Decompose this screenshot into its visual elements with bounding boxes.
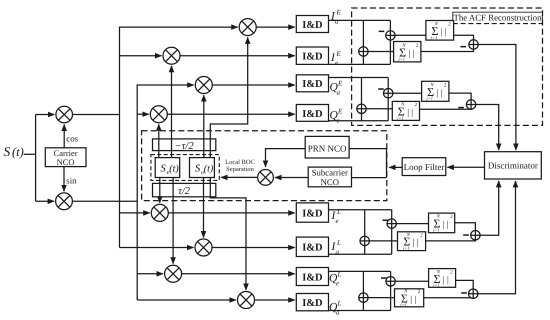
- svg-text:(t): (t): [204, 163, 214, 174]
- mixer M5: [151, 204, 168, 221]
- svg-text:I&D: I&D: [302, 272, 323, 283]
- svg-text:NCO: NCO: [321, 177, 339, 187]
- wire M1 to I&D U1: [256, 26, 294, 28]
- I&D block U7: [296, 268, 328, 286]
- text sum S4f: [432, 269, 453, 288]
- label Ie^L row5: [331, 208, 342, 225]
- wire adder A4d to S4f: [395, 280, 428, 282]
- wire BOC mixer to separation box: [221, 176, 258, 178]
- svg-text:a: a: [336, 248, 340, 256]
- wire adder A2d to S2f: [393, 92, 422, 94]
- svg-text:NCO: NCO: [57, 157, 75, 167]
- minus sign at F4: [461, 292, 467, 294]
- svg-text:cos: cos: [66, 134, 78, 144]
- wire M8 to I&D U8: [255, 299, 295, 301]
- wire carrier mixer I output: [73, 114, 120, 116]
- wire U2 output row: [329, 63, 391, 65]
- svg-text:a: a: [335, 18, 339, 26]
- block subcarrier NCO: [308, 167, 351, 187]
- wire U8 output row: [329, 310, 391, 312]
- svg-text:I&D: I&D: [302, 79, 323, 90]
- wire adder A3s to S3n: [369, 240, 397, 242]
- wire F4 to discriminator: [478, 181, 516, 294]
- mixer carrier I: [56, 106, 73, 123]
- wire adder A4s to S4n: [368, 297, 395, 299]
- svg-text:| |: | |: [410, 294, 416, 304]
- svg-text:E: E: [336, 9, 342, 17]
- wire S3n to final adder F3: [426, 240, 476, 241]
- wire S4f to final adder F4: [456, 280, 474, 289]
- adder A1s: [359, 47, 368, 56]
- wire S2f to final adder F2: [449, 93, 471, 100]
- wire PRN NCO to BOC mixer: [266, 149, 306, 167]
- svg-text:(t): (t): [169, 163, 179, 174]
- summation block S2f: [422, 81, 449, 101]
- svg-text:E: E: [336, 50, 342, 58]
- summation block S2n: [392, 101, 419, 120]
- svg-text:| |: | |: [443, 274, 449, 284]
- dashed box ACF reconstruction: [352, 8, 543, 125]
- svg-text:I&D: I&D: [302, 20, 323, 31]
- wire subcarrier NCO to BOC mixer: [275, 177, 308, 179]
- svg-text:L: L: [336, 239, 341, 247]
- label Qe^L row7: [329, 271, 342, 288]
- text sum S4n: [399, 288, 420, 307]
- wire Q distribution bus + feed M3: [137, 85, 193, 300]
- summation block S1f: [426, 21, 454, 41]
- wire PRN NCO right feed: [349, 148, 386, 150]
- wire M6 to I&D U6: [212, 247, 295, 249]
- block Se(t): [155, 158, 180, 178]
- svg-text:−τ/2: −τ/2: [175, 141, 195, 152]
- adder A3d: [387, 219, 396, 228]
- wire adder A2s to S2n: [366, 108, 392, 110]
- minus sign at A4d: [381, 277, 387, 279]
- svg-text:L: L: [336, 208, 341, 216]
- text sum S1f: [430, 21, 451, 40]
- svg-text:j=1: j=1: [399, 302, 407, 307]
- summation block S3f: [429, 213, 455, 233]
- svg-text:e: e: [337, 117, 340, 125]
- wire adder A3d to S3f: [396, 223, 428, 225]
- mixer M8: [238, 292, 255, 309]
- wire U5 output row: [329, 209, 392, 211]
- wire cos from carrier NCO: [63, 125, 65, 148]
- svg-text:The ACF Reconstruction: The ACF Reconstruction: [454, 12, 543, 22]
- minus sign at F3: [463, 234, 469, 236]
- svg-text:τ/2: τ/2: [178, 186, 191, 197]
- wire F3 to discriminator: [480, 181, 499, 235]
- mixer M4: [150, 106, 167, 123]
- mixer M3: [195, 77, 212, 94]
- svg-text:I&D: I&D: [302, 208, 323, 219]
- svg-text:j=1: j=1: [426, 96, 434, 101]
- wire subcarrier NCO right feed: [352, 177, 387, 179]
- wire discriminator to loop filter: [448, 166, 485, 168]
- wire carrier mixer Q output: [72, 200, 137, 202]
- wire adder A1s to S1n: [368, 51, 394, 53]
- svg-text:| |: | |: [443, 219, 449, 229]
- block So(t): [190, 158, 215, 178]
- adder F2: [466, 100, 475, 109]
- svg-text:j=1: j=1: [402, 246, 410, 251]
- wire M5 to I&D U5: [168, 212, 294, 214]
- svg-text:j=1: j=1: [430, 35, 438, 40]
- wire S1n to final adder F1: [421, 49, 474, 51]
- I&D block U8: [296, 294, 328, 311]
- svg-text:L: L: [337, 300, 342, 308]
- wire sin from carrier NCO: [63, 167, 65, 192]
- text sum S3f: [432, 214, 453, 233]
- mixer M1: [239, 19, 256, 36]
- label Qe^E row4: [330, 108, 344, 125]
- adder F3: [471, 231, 480, 240]
- label Qa^E row3: [330, 80, 344, 97]
- text sum S3n: [402, 232, 423, 251]
- wire group1 diff vertical: [389, 20, 391, 64]
- wire M4 to I&D U4: [167, 113, 294, 115]
- summation block S3n: [398, 232, 426, 251]
- svg-text:S: S: [4, 144, 11, 159]
- block carrier NCO: [45, 148, 86, 167]
- dashed box local replica section: [142, 131, 387, 201]
- mixer carrier Q: [56, 193, 73, 210]
- wire feed M4: [137, 113, 149, 115]
- text sum S2n: [396, 102, 417, 121]
- summation block S4n: [395, 289, 424, 307]
- svg-text:I&D: I&D: [302, 109, 323, 120]
- wire into carrier mixer Q: [36, 200, 54, 202]
- svg-text:e: e: [336, 280, 339, 288]
- wire code Se late to M5: [159, 178, 161, 203]
- wire code Se early to M2: [171, 66, 173, 158]
- svg-text:Separation: Separation: [226, 166, 255, 173]
- wire loop filter to NCO bus: [389, 166, 402, 168]
- wire into carrier mixer I: [36, 114, 55, 116]
- minus sign at A1d: [379, 31, 385, 32]
- wire M7 to I&D U7: [182, 273, 295, 275]
- svg-text:Loop Filter: Loop Filter: [404, 162, 445, 172]
- text sum S1n: [398, 43, 419, 62]
- svg-text:j=1: j=1: [396, 115, 404, 120]
- wire input split vertical: [35, 115, 37, 202]
- wire code So early to M3: [203, 95, 205, 157]
- svg-text:E: E: [337, 108, 343, 116]
- wire feed M5: [120, 212, 150, 214]
- svg-text:S: S: [161, 163, 167, 174]
- label Ia^L row6: [331, 239, 342, 256]
- svg-text:e: e: [336, 217, 339, 225]
- adder F4: [469, 289, 478, 298]
- adder A1d: [386, 31, 395, 40]
- I&D block U1: [296, 16, 328, 33]
- wire U3 output row: [329, 77, 389, 79]
- svg-text:sin: sin: [66, 176, 77, 186]
- summation block S4f: [429, 269, 456, 288]
- wire code Se early to M4: [158, 124, 160, 157]
- wire S1f to final adder F1: [454, 35, 474, 39]
- mixer M7: [165, 265, 182, 282]
- wire group4 sum vertical: [362, 271, 364, 310]
- wire U7 output row: [329, 270, 391, 272]
- wire group3 sum vertical: [364, 210, 366, 255]
- svg-text:I&D: I&D: [302, 298, 323, 309]
- wire group3 diff vertical: [391, 210, 393, 255]
- summation block S1n: [394, 42, 421, 62]
- I&D block U4: [296, 105, 328, 122]
- block loop filter: [402, 158, 446, 176]
- wire U1 output row: [329, 19, 391, 21]
- wire code Se late to M7: [172, 178, 174, 264]
- wire S4n to final adder F4: [424, 297, 474, 300]
- adder A3s: [360, 236, 369, 245]
- wire code So late jog to M8: [210, 178, 246, 290]
- svg-text:e: e: [335, 59, 338, 67]
- minus sign at F1: [460, 46, 466, 48]
- mixer BOC subcarrier: [258, 170, 274, 186]
- wire feed M2: [120, 55, 162, 57]
- svg-text:L: L: [337, 271, 342, 279]
- adder A2d: [384, 89, 393, 98]
- wire F2 to discriminator: [476, 105, 499, 150]
- svg-text:a: a: [337, 89, 341, 97]
- minus sign at A3d: [383, 220, 389, 222]
- wire feed M6: [120, 247, 194, 249]
- wire group1 sum vertical: [362, 20, 364, 64]
- wire I distribution bus + feed M1: [120, 27, 238, 247]
- svg-text:PRN NCO: PRN NCO: [308, 144, 347, 154]
- svg-text:| |: | |: [413, 237, 419, 247]
- wire adder A1d to S1f: [395, 34, 426, 36]
- text sum S2f: [426, 82, 447, 101]
- svg-text:E: E: [337, 80, 343, 88]
- svg-text:j=1: j=1: [432, 283, 440, 288]
- block discriminator: [485, 152, 542, 179]
- delay block -tau/2: [153, 139, 216, 151]
- block PRN NCO: [305, 136, 349, 158]
- delay block tau/2: [153, 183, 216, 196]
- svg-text:| |: | |: [441, 26, 447, 36]
- wire group4 diff vertical: [390, 271, 392, 310]
- wire code So late to M6: [203, 178, 205, 238]
- wire feed M7: [137, 273, 163, 275]
- label Qa^L row8: [329, 300, 342, 317]
- svg-text:I&D: I&D: [302, 52, 323, 63]
- adder A2s: [357, 104, 366, 113]
- label Ie^E row2: [330, 50, 342, 67]
- svg-text:(t): (t): [12, 145, 24, 159]
- svg-text:| |: | |: [437, 87, 443, 97]
- wire S2n to final adder F2: [420, 108, 472, 110]
- adder A4d: [386, 277, 395, 286]
- mixer M6: [195, 239, 212, 256]
- minus sign at F2: [458, 107, 464, 109]
- mixer M2: [163, 47, 180, 64]
- wire S3f to final adder F3: [455, 223, 476, 231]
- adder A4s: [359, 293, 368, 302]
- I&D block U6: [296, 237, 328, 256]
- wire feed M8: [137, 299, 236, 301]
- svg-text:j=1: j=1: [398, 56, 406, 61]
- wire M2 to I&D U2: [180, 55, 295, 57]
- title box The ACF Reconstruction: [453, 12, 543, 23]
- wire M3 to I&D U3: [212, 84, 294, 86]
- label Ia^E row1: [330, 9, 342, 26]
- wire NCO feedback bus: [386, 149, 388, 178]
- dashed box local BOC separation: [151, 155, 219, 181]
- wire U6 output row: [329, 253, 392, 255]
- svg-text:j=1: j=1: [432, 227, 440, 232]
- wire S(t) input lead: [24, 153, 36, 155]
- svg-text:| |: | |: [409, 48, 415, 58]
- wire group2 diff vertical: [387, 78, 389, 121]
- svg-text:| |: | |: [407, 107, 413, 117]
- adder F1: [469, 40, 478, 49]
- svg-text:Local BOC: Local BOC: [225, 159, 255, 166]
- wire U4 output row: [329, 120, 389, 122]
- wire group2 sum vertical: [361, 78, 363, 121]
- I&D block U2: [296, 47, 328, 64]
- minus sign at A2d: [378, 88, 384, 90]
- svg-text:a: a: [336, 309, 340, 317]
- I&D block U5: [296, 203, 328, 222]
- svg-text:S: S: [195, 163, 201, 174]
- svg-text:Discriminator: Discriminator: [488, 160, 538, 170]
- wire F1 to discriminator: [478, 45, 516, 150]
- I&D block U3: [296, 75, 328, 92]
- wire code So early jog to M1: [210, 38, 247, 158]
- svg-text:I&D: I&D: [302, 243, 323, 254]
